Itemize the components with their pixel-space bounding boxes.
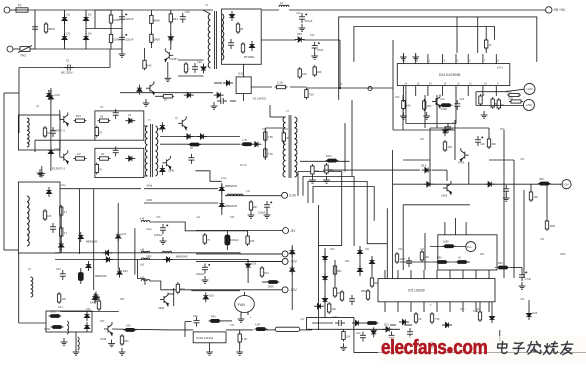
ground G14 xyxy=(236,348,243,355)
svg-text:D4: D4 xyxy=(88,32,92,36)
wire left long v2 xyxy=(402,95,404,130)
wire opto to ic xyxy=(306,87,393,89)
resistor R36 xyxy=(333,264,336,276)
svg-text:D30: D30 xyxy=(310,34,315,37)
wire X-cap drop xyxy=(34,10,36,49)
wire right col xyxy=(291,245,293,310)
svg-text:D1: D1 xyxy=(67,13,71,17)
svg-text:Q10: Q10 xyxy=(440,98,445,101)
diode D82 xyxy=(116,232,121,242)
IC U3 top pins xyxy=(385,270,489,279)
diode D2 xyxy=(83,14,88,24)
capacitor C14 xyxy=(50,223,56,233)
wire bl q5 out xyxy=(112,328,170,331)
svg-text:100K: 100K xyxy=(550,225,556,228)
watermark chinese characters xyxy=(490,336,586,364)
svg-text:R61: R61 xyxy=(480,253,485,256)
capacitor C13 xyxy=(50,127,56,137)
svg-text:1.7K: 1.7K xyxy=(242,139,247,142)
svg-text:D61: D61 xyxy=(365,248,370,251)
capacitor CX1 xyxy=(32,23,38,33)
svg-text:IC4-1: IC4-1 xyxy=(497,67,504,70)
ground G8 xyxy=(37,169,44,176)
wire right v2 xyxy=(523,190,525,278)
transformer T1 secondary xyxy=(156,126,158,176)
svg-text:100K: 100K xyxy=(113,18,120,22)
svg-text:1K: 1K xyxy=(164,98,167,102)
svg-text:R13: R13 xyxy=(76,114,81,118)
transformer T2 primary xyxy=(283,117,286,177)
resistor R16 xyxy=(236,22,239,34)
IC U4 KA7500B xyxy=(397,64,510,86)
ground G21 xyxy=(503,194,510,201)
box power-good xyxy=(438,235,497,270)
wire C1 right up xyxy=(109,49,111,68)
svg-text:16K: 16K xyxy=(427,104,432,108)
resistor R30 xyxy=(124,328,137,331)
resistor R60 xyxy=(366,289,369,301)
svg-text:R25: R25 xyxy=(395,96,400,99)
svg-text:3.3V: 3.3V xyxy=(289,194,297,198)
svg-text:10K: 10K xyxy=(346,336,351,339)
svg-text:R16: R16 xyxy=(398,248,403,251)
capacitor C40 xyxy=(188,154,194,164)
svg-text:L6: L6 xyxy=(280,1,284,5)
transformer T3 secondary xyxy=(222,14,224,60)
wire bottom long xyxy=(354,352,586,354)
capacitor C34 xyxy=(475,136,483,146)
wire out links xyxy=(475,92,477,106)
svg-text:120K: 120K xyxy=(506,90,512,94)
svg-text:47uF: 47uF xyxy=(317,48,324,52)
terminal out-minus12-b xyxy=(524,83,535,94)
wire bridge midtap xyxy=(86,28,122,30)
wire AC bottom xyxy=(36,48,122,50)
ground G12 xyxy=(73,348,80,355)
resistor R38 xyxy=(370,276,373,288)
svg-text:10K: 10K xyxy=(534,196,539,199)
wire bottom v xyxy=(499,330,501,341)
wire bus L5 xyxy=(402,205,404,270)
svg-text:4.3K: 4.3K xyxy=(255,323,261,327)
wire bm link xyxy=(362,322,366,324)
wire bus L4 xyxy=(313,187,374,221)
ground G17 xyxy=(400,53,407,60)
svg-text:L40: L40 xyxy=(140,248,145,251)
wire sense row3 xyxy=(432,169,447,171)
wire drive row2 xyxy=(155,95,162,97)
svg-text:10K: 10K xyxy=(302,72,307,76)
wire opto top feed xyxy=(243,64,245,77)
resistor R62 xyxy=(366,322,379,325)
resistor R76 xyxy=(60,226,63,238)
wire r26 link xyxy=(262,281,268,283)
resistor R52 xyxy=(395,252,398,264)
wire r59 link xyxy=(479,302,481,311)
svg-text:D2: D2 xyxy=(88,13,92,17)
resistor R35 xyxy=(238,332,241,344)
wire a733 v xyxy=(429,128,431,184)
wire T1 Q1 link xyxy=(144,125,148,127)
resistor R21 xyxy=(305,88,308,100)
wire left rail xyxy=(3,93,5,250)
svg-text:L10: L10 xyxy=(300,318,305,321)
wire left long v xyxy=(392,40,394,130)
svg-text:D23: D23 xyxy=(384,324,389,327)
svg-text:C12: C12 xyxy=(356,332,361,335)
svg-text:C33: C33 xyxy=(156,216,161,219)
resistor R41 xyxy=(423,99,426,111)
wire sense drop xyxy=(446,170,448,181)
wire d89 v xyxy=(247,260,249,284)
svg-text:R62: R62 xyxy=(345,260,350,263)
svg-text:R50: R50 xyxy=(100,320,105,323)
resistor R32 xyxy=(97,299,100,311)
wire q5b rail xyxy=(173,288,175,306)
diode D16 xyxy=(184,93,194,98)
ground G15 xyxy=(206,348,213,355)
resistor R68 xyxy=(326,159,339,162)
resistor R79 xyxy=(176,282,179,294)
svg-text:D3: D3 xyxy=(67,32,71,36)
wire Q2 rail xyxy=(50,152,52,171)
svg-text:D26: D26 xyxy=(252,263,257,266)
diode D18 xyxy=(229,11,234,21)
diode D4 xyxy=(83,33,88,43)
wire net v b xyxy=(351,100,353,177)
diode D93 xyxy=(371,327,376,337)
wire bulk cap column xyxy=(110,10,112,49)
resistor R1 xyxy=(44,22,47,34)
svg-text:-12V: -12V xyxy=(290,288,298,292)
diode D94 xyxy=(383,327,393,332)
box bl loop xyxy=(46,311,92,332)
svg-text:C21: C21 xyxy=(420,248,425,251)
wire bl rail xyxy=(18,253,20,323)
svg-text:100: 100 xyxy=(332,308,337,311)
svg-text:L42: L42 xyxy=(140,264,145,267)
svg-text:C40: C40 xyxy=(185,10,190,14)
resistor R14 xyxy=(184,62,187,74)
inductor L10 bar xyxy=(266,327,312,331)
svg-text:D32: D32 xyxy=(158,128,163,131)
terminal PG xyxy=(466,242,476,252)
wire r35 top xyxy=(239,330,241,334)
svg-text:U41a: U41a xyxy=(146,228,152,231)
svg-text:220uF: 220uF xyxy=(126,17,134,21)
svg-text:X2 LM431: X2 LM431 xyxy=(253,97,267,101)
wire bus v5 xyxy=(371,256,373,276)
wire bl gnd stub xyxy=(75,332,77,348)
resistor R45 xyxy=(507,93,521,96)
svg-text:C945: C945 xyxy=(441,194,448,198)
capacitor C38 xyxy=(349,295,355,305)
svg-text:R42: R42 xyxy=(476,308,481,311)
wire fan feed xyxy=(244,292,246,296)
wire bulk cap top xyxy=(95,9,122,11)
resistor R67 xyxy=(241,143,254,146)
diode D10 xyxy=(48,92,53,102)
wire r35 bot xyxy=(239,342,241,348)
resistor R75 xyxy=(60,205,63,217)
svg-text:F1: F1 xyxy=(18,3,22,7)
resistor R40 xyxy=(402,99,405,111)
wire mid v 425 xyxy=(424,95,426,128)
diode D22 xyxy=(46,187,51,197)
wire pg stub b xyxy=(455,218,457,235)
ground G20 xyxy=(400,112,407,119)
svg-text:MBR2045: MBR2045 xyxy=(176,255,188,259)
svg-text:C945: C945 xyxy=(158,307,165,310)
resistor R7 xyxy=(74,157,87,160)
capacitor C10 xyxy=(180,13,186,23)
svg-text:SB +5V: SB +5V xyxy=(554,8,566,12)
resistor R13 xyxy=(143,58,146,70)
svg-text:+: + xyxy=(250,315,252,319)
resistor R57 xyxy=(414,312,417,324)
svg-text:R65: R65 xyxy=(498,262,503,265)
wire rail 5v xyxy=(196,253,282,255)
svg-text:C20: C20 xyxy=(197,60,202,64)
ground G13 xyxy=(119,348,126,355)
capacitor C41 xyxy=(445,123,451,133)
svg-text:R22: R22 xyxy=(452,122,457,125)
wire opto bot xyxy=(243,94,245,101)
wire bus L3 xyxy=(308,182,387,244)
wire AC top xyxy=(28,9,151,11)
capacitor C37 xyxy=(407,328,413,338)
wire mid link xyxy=(35,139,95,141)
capacitor C39 xyxy=(335,320,345,326)
wire sn h xyxy=(265,127,284,129)
capacitor C21 xyxy=(312,42,320,52)
diode D63 xyxy=(485,182,495,187)
ground G24 xyxy=(429,341,436,348)
resistor R34 xyxy=(254,328,267,331)
ground G3 xyxy=(164,74,171,81)
wire rail -5v xyxy=(196,230,283,232)
wire bank low xyxy=(191,290,240,292)
capacitor C67 xyxy=(389,332,395,342)
diode D69 xyxy=(160,122,165,132)
IC U4 bottom pins xyxy=(403,86,496,96)
capacitor C64 dark xyxy=(225,231,230,250)
inductor L45 xyxy=(141,220,150,222)
svg-text:D40B: D40B xyxy=(90,302,97,305)
ground G28 xyxy=(202,276,209,283)
svg-text:D43: D43 xyxy=(533,312,538,315)
terminal PS-ON xyxy=(562,180,571,189)
transformer T1 primary xyxy=(145,126,147,176)
resistor R19 xyxy=(298,67,301,79)
svg-text:1K: 1K xyxy=(190,147,193,150)
transformer T2 secondary xyxy=(295,117,298,177)
wire T3 top xyxy=(203,10,211,14)
svg-text:C1: C1 xyxy=(66,59,70,63)
diode D91 xyxy=(290,247,295,257)
wire out row2 xyxy=(476,105,524,107)
svg-text:D11a: D11a xyxy=(60,184,66,187)
svg-text:1000uF: 1000uF xyxy=(230,239,239,242)
resistor R80 xyxy=(342,330,345,342)
diode D87 xyxy=(93,292,98,302)
wire pg row xyxy=(430,246,466,248)
IC U4 pin numbers xyxy=(404,60,499,86)
wire SB rail b xyxy=(289,9,546,11)
char dian (electric) xyxy=(497,342,508,354)
svg-text:4.7: 4.7 xyxy=(64,232,68,235)
resistor R11 xyxy=(150,32,153,44)
wire out row1 xyxy=(476,91,505,93)
resistor R71 xyxy=(443,245,456,248)
capacitor C11 xyxy=(228,39,234,49)
wire bus v2 xyxy=(324,248,326,318)
wire standby rail xyxy=(170,10,172,50)
diode D84 xyxy=(103,257,113,262)
capacitor C47 xyxy=(264,201,272,211)
svg-text:40K: 40K xyxy=(317,70,322,74)
wire right h link xyxy=(489,159,514,161)
svg-text:A733: A733 xyxy=(458,161,465,165)
capacitor C6 xyxy=(119,34,127,44)
wire bus v1 xyxy=(318,205,320,330)
resistor R81 xyxy=(328,302,331,314)
svg-text:2.2W: 2.2W xyxy=(44,327,51,331)
wire sb out2 xyxy=(303,39,340,41)
transistor Q11 xyxy=(162,156,171,170)
wire base1 drop xyxy=(59,110,61,119)
resistor R50 xyxy=(443,140,446,152)
ground G9 xyxy=(264,211,271,218)
svg-text:D10: D10 xyxy=(48,90,53,93)
wire bank v4 xyxy=(134,228,136,274)
svg-text:470uF: 470uF xyxy=(305,19,313,23)
IC U4 top pins xyxy=(403,54,496,64)
wire fb rail 1 xyxy=(339,17,537,100)
wire standby rail top xyxy=(151,9,213,11)
wire bank left xyxy=(60,205,62,253)
svg-text:D43: D43 xyxy=(123,270,128,273)
wire opto row xyxy=(251,86,272,88)
box snubber2 xyxy=(95,148,144,177)
terminal AC-L xyxy=(4,7,10,13)
wire ic bottom row xyxy=(406,123,456,125)
wire fan leg2 xyxy=(247,312,249,316)
resistor R77 xyxy=(203,233,206,245)
svg-text:1K: 1K xyxy=(458,256,461,259)
svg-text:1000uF: 1000uF xyxy=(196,273,205,276)
svg-text:D5.8: D5.8 xyxy=(421,165,427,168)
svg-text:R61: R61 xyxy=(337,270,342,273)
wire bank v3 xyxy=(117,203,119,269)
IC U3 bottom pins xyxy=(385,302,489,312)
resistor R54 xyxy=(436,261,449,264)
wire left box link xyxy=(4,249,18,251)
wire r13 link xyxy=(144,48,146,58)
capacitor C36 xyxy=(519,271,527,281)
resistor R53 xyxy=(420,250,423,262)
wire T2 top link xyxy=(270,116,286,118)
svg-text:L42: L42 xyxy=(196,216,201,219)
fuse F1 xyxy=(10,8,28,12)
char zi (child) xyxy=(513,343,525,354)
svg-text:7.5K: 7.5K xyxy=(309,93,315,97)
svg-text:10K: 10K xyxy=(448,146,453,149)
svg-text:560K: 560K xyxy=(268,286,274,289)
svg-text:3C32 LM431: 3C32 LM431 xyxy=(196,336,214,340)
box standby secondary xyxy=(222,9,262,64)
svg-text:BT169D: BT169D xyxy=(244,55,254,59)
wire pg stub a xyxy=(444,222,446,235)
diode D68 xyxy=(352,320,362,325)
wire lm339 bot row xyxy=(390,324,396,326)
svg-text:C42: C42 xyxy=(56,268,61,271)
ground G23 xyxy=(413,341,420,348)
terminal out-12v xyxy=(282,258,288,264)
svg-text:7.5K: 7.5K xyxy=(268,153,273,156)
ground G16 xyxy=(238,315,245,322)
svg-text:4.7uF: 4.7uF xyxy=(525,277,532,281)
svg-text:C31: C31 xyxy=(520,158,525,161)
diode D1 xyxy=(62,14,67,24)
diode D40 MBR2045 xyxy=(219,184,224,194)
wire d66 link xyxy=(491,302,493,314)
resistor R9 xyxy=(95,163,98,175)
wire to gnd1 xyxy=(121,44,123,52)
wire ic bottom v xyxy=(455,94,457,123)
svg-text:2K: 2K xyxy=(419,318,422,321)
diode D85 xyxy=(86,261,91,271)
transistor Q8 xyxy=(443,181,452,195)
diode D89 xyxy=(246,261,251,271)
inductor L42 xyxy=(141,258,150,260)
diode D57 xyxy=(322,273,327,283)
wire pson row xyxy=(393,183,561,185)
terminal out-5v xyxy=(282,251,288,257)
capacitor C12 xyxy=(217,98,227,104)
svg-text:D24: D24 xyxy=(449,128,454,131)
wire pg stub c xyxy=(465,222,467,235)
wire fb rail 3 xyxy=(456,17,458,53)
wire pg right2 xyxy=(510,267,522,269)
diode D88 xyxy=(163,257,173,262)
resistor R33 xyxy=(209,319,222,322)
box feedback lower xyxy=(18,182,60,253)
svg-text:2.2: 2.2 xyxy=(77,152,81,156)
diode D55 xyxy=(84,322,89,332)
diode D54b xyxy=(92,293,97,303)
resistor R49 xyxy=(545,219,548,231)
wire HV divider xyxy=(150,10,152,48)
transformer T4 winding xyxy=(27,118,29,147)
wire opto row2 xyxy=(290,86,306,88)
resistor R37 xyxy=(333,286,336,298)
resistor R61 xyxy=(340,290,343,302)
char shao (burn) xyxy=(543,342,558,355)
svg-text:P.G: P.G xyxy=(467,245,471,249)
resistor R3 xyxy=(109,33,112,45)
wire bm row xyxy=(312,322,333,324)
terminal out-5v-b xyxy=(523,100,534,111)
capacitor C8 xyxy=(113,109,119,119)
svg-text:(+5V): (+5V) xyxy=(526,104,532,107)
diode D62 xyxy=(423,182,433,187)
wire pin9 long a xyxy=(402,96,404,102)
wire bus drop e xyxy=(386,208,388,278)
wire bank top xyxy=(60,188,141,190)
resistor R55 xyxy=(456,261,469,264)
wire midtap drop xyxy=(94,10,96,29)
